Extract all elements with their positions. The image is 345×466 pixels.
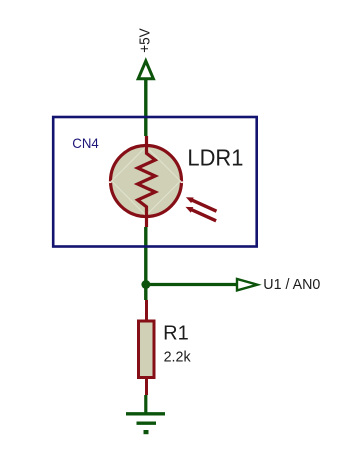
svg-text:+5V: +5V <box>138 28 154 53</box>
svg-text:LDR1: LDR1 <box>187 145 243 171</box>
svg-text:CN4: CN4 <box>72 136 99 151</box>
svg-text:U1 / AN0: U1 / AN0 <box>263 276 320 293</box>
svg-text:2.2k: 2.2k <box>164 350 192 366</box>
svg-text:R1: R1 <box>163 323 189 345</box>
